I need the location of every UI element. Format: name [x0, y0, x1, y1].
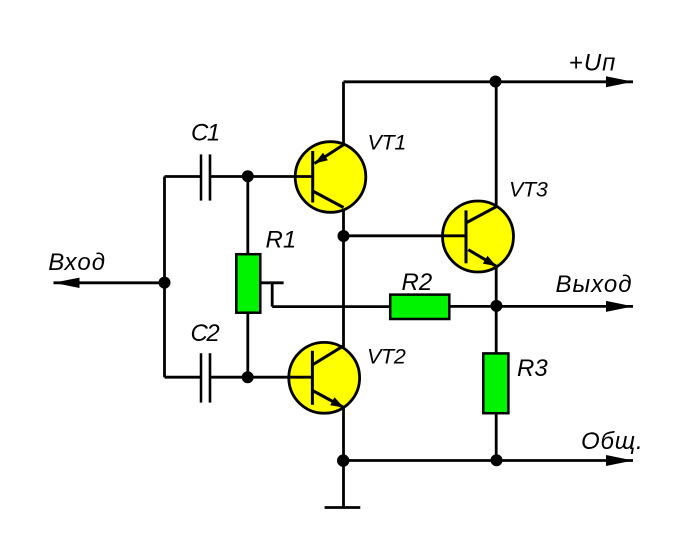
wire R1 tap horizontal	[260, 281, 283, 284]
svg-text:Вход: Вход	[48, 249, 106, 276]
transistor VT3 (NPN)	[443, 201, 514, 272]
ground bar	[325, 506, 361, 509]
wire R1 bottom to C2 node	[246, 313, 249, 378]
transistor VT2 (NPN)	[289, 342, 360, 413]
wire tap to R2	[272, 305, 390, 308]
wire to C1 left	[165, 175, 201, 178]
wire VT3 emitter to output node	[495, 266, 498, 306]
wire C2 to VT2 base	[211, 376, 312, 379]
capacitor C1	[201, 154, 210, 200]
arrowhead +Up	[606, 76, 633, 87]
svg-text:Выход: Выход	[556, 271, 633, 298]
svg-text:R2: R2	[402, 269, 433, 296]
wire VT3 collector to rail	[495, 82, 498, 207]
resistor R2	[390, 295, 449, 319]
wire +Up rail	[344, 80, 634, 83]
wire R1 tap vertical	[271, 283, 274, 307]
wire C1 node to R1 top	[246, 177, 249, 255]
wire left vertical	[163, 177, 166, 378]
svg-text:C2: C2	[191, 320, 220, 347]
capacitor C2	[201, 353, 210, 402]
svg-text:+Uп: +Uп	[569, 50, 617, 77]
wire input	[54, 281, 165, 284]
arrowhead output	[606, 301, 633, 312]
resistor R1 (with tap)	[236, 254, 260, 313]
resistor R3	[483, 353, 508, 413]
wire common rail	[344, 459, 634, 462]
node C2/R1	[242, 371, 254, 383]
svg-text:C1: C1	[191, 120, 219, 147]
svg-text:VT1: VT1	[368, 131, 407, 155]
arrowhead common	[606, 455, 633, 466]
wire R3 to common	[495, 413, 498, 460]
wire VT1 bottom	[342, 207, 345, 236]
node VT1/VT3 base	[338, 230, 350, 242]
transistor VT1 (PNP)	[295, 142, 366, 213]
wire node to VT3 base	[344, 234, 467, 237]
wire output node to R3	[495, 306, 498, 353]
node output	[490, 300, 502, 312]
arrowhead input	[54, 278, 80, 288]
node VT2/ground	[337, 454, 349, 466]
wire VT1 node to VT2 top	[342, 236, 345, 347]
svg-text:Общ.: Общ.	[581, 428, 643, 455]
svg-text:R1: R1	[266, 227, 297, 254]
node +Up/VT3	[490, 76, 502, 88]
node input	[159, 277, 171, 289]
wire C1 to VT1 base	[211, 175, 313, 178]
wire output	[449, 305, 633, 308]
wire VT2 emitter down	[342, 408, 345, 461]
svg-text:VT2: VT2	[367, 345, 406, 369]
wire to C2 left	[165, 376, 201, 379]
svg-text:R3: R3	[517, 355, 548, 382]
ground stem	[342, 461, 345, 508]
node C1/R1	[242, 170, 254, 182]
node R3/common	[491, 454, 503, 466]
svg-text:VT3: VT3	[509, 178, 548, 202]
wire VT1 top to rail	[342, 82, 345, 146]
